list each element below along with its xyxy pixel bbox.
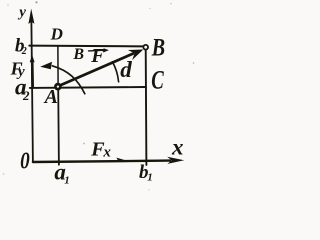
svg-text:1: 1 [147,172,153,184]
svg-text:y: y [17,5,26,21]
svg-text:d: d [120,57,132,82]
svg-text:A: A [43,86,58,108]
svg-text:1: 1 [64,175,70,187]
svg-text:2: 2 [21,46,27,57]
svg-text:C: C [151,66,164,95]
svg-text:F: F [90,45,105,67]
svg-text:0: 0 [20,147,30,174]
svg-text:D: D [50,25,63,44]
svg-text:B: B [72,46,84,63]
svg-text:x: x [102,145,111,161]
svg-text:x: x [171,135,184,160]
svg-text:2: 2 [22,88,30,103]
svg-text:B: B [151,33,165,61]
